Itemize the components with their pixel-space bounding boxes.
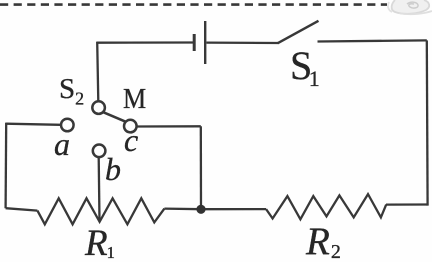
wire: R2 right lead [386,203,428,205]
wire: left drop to S2 pivot [97,42,98,102]
wire: junction to R2 [201,208,266,210]
wire: battery right lead [207,41,279,44]
label c [124,122,138,159]
label R2 [306,219,341,262]
wire: tap b to R1 centre [98,157,101,221]
switch S1 blade [278,21,319,44]
wire: bottom-left lead [6,208,38,210]
S2 pivot contact (circle) [92,101,105,114]
label R1 [85,222,115,262]
battery positive plate (long) [204,21,206,64]
contact a (circle) [61,119,74,132]
dashed separator line [0,3,387,6]
contact c (circle) [124,120,137,133]
contact b (circle) [93,145,106,158]
wire: contact a lead [6,124,60,125]
resistor R1 zigzag [37,198,164,224]
battery negative plate (short) [193,34,196,51]
wire: right rail [426,40,429,205]
wire: c to right drop [137,125,201,127]
label S2 [59,73,84,110]
wire: drop to junction [200,126,202,206]
label a [54,126,70,163]
label M [123,84,146,116]
wire: left rail [4,123,7,209]
wire: battery left lead [97,41,193,44]
switch S2 blade [103,112,125,122]
smudge artifact top-right [388,0,432,14]
junction node (filled) [196,205,205,214]
wire: S1 right lead [318,40,427,41]
wire: R1 right lead to junction [164,207,201,210]
resistor R2 zigzag [266,194,386,219]
label S1 [290,42,320,92]
label b [105,151,121,188]
